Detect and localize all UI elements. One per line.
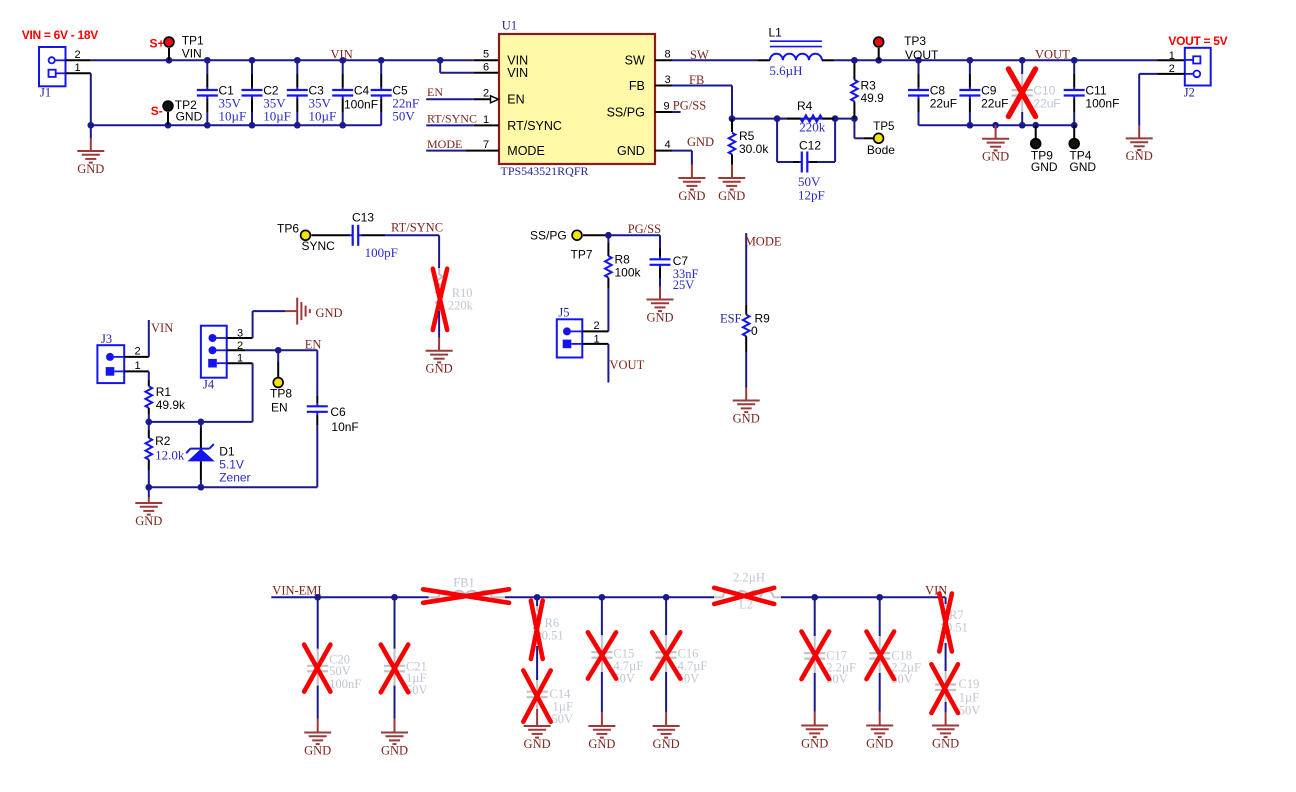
ground J2 [1126, 138, 1153, 163]
wire U1 pin3 FB [655, 86, 732, 119]
testpoint TP4 [1069, 125, 1096, 174]
wire branch to U1 pin6 [440, 60, 499, 73]
DNP X over C14 [523, 670, 550, 721]
ground R9 [733, 401, 760, 426]
svg-text:TP3: TP3 [904, 34, 926, 48]
label net PG/SS at TP7 [628, 222, 661, 236]
svg-text:GND: GND [678, 189, 705, 203]
wire MODE stub to U1 pin7 [426, 150, 499, 152]
svg-text:2: 2 [593, 320, 599, 332]
wire EMI rail mid [505, 596, 714, 598]
connector J5 [557, 306, 583, 358]
wire EMI rail left [271, 596, 428, 598]
svg-text:1: 1 [74, 62, 80, 74]
svg-text:12pF: 12pF [798, 188, 825, 203]
svg-text:J2: J2 [1184, 86, 1195, 100]
capacitor C6 [307, 396, 359, 487]
svg-text:7: 7 [483, 139, 489, 151]
capacitor C18 (DNP) [869, 597, 921, 725]
ground C7 [646, 300, 673, 325]
wire MODE stub [745, 233, 747, 315]
label VIN = 6V - 18V [22, 28, 98, 42]
svg-text:EN: EN [507, 92, 524, 106]
svg-text:GND: GND [1126, 149, 1153, 163]
svg-text:R4: R4 [797, 99, 813, 113]
capacitor C15 (DNP) [591, 597, 643, 726]
inductor L2 (DNP) [714, 571, 781, 612]
J2 pin labels [1169, 50, 1175, 75]
svg-text:GND: GND [1069, 160, 1096, 174]
svg-text:C4: C4 [354, 83, 370, 97]
connector J4 [201, 326, 227, 392]
svg-text:GND: GND [932, 736, 959, 750]
svg-text:22uF: 22uF [1033, 96, 1060, 110]
label net RT/SYNC at U1 [427, 112, 477, 126]
wire J5 pin1 to VOUT stub [582, 344, 608, 383]
svg-text:MODE: MODE [507, 144, 545, 158]
svg-text:GND: GND [653, 737, 680, 751]
svg-text:VIN-EMI: VIN-EMI [272, 584, 321, 598]
svg-text:10nF: 10nF [331, 420, 358, 434]
capacitor C3 [287, 60, 336, 125]
wire SW to VOUT rail [834, 59, 1185, 61]
capacitor C1 [197, 60, 246, 125]
svg-text:9: 9 [663, 100, 669, 112]
U1 pin numbers [483, 49, 671, 152]
resistor R9 [720, 312, 770, 388]
ground output mid [982, 125, 1009, 163]
DNP X over FB1 [423, 589, 509, 603]
svg-text:VIN: VIN [331, 47, 353, 61]
svg-text:VIN: VIN [151, 321, 173, 335]
node VIN junctions top rail [166, 57, 444, 64]
svg-text:VOUT: VOUT [1035, 47, 1070, 61]
svg-text:GND: GND [866, 736, 893, 750]
inductor L1 [757, 25, 834, 78]
svg-text:100nF: 100nF [344, 97, 378, 111]
capacitor C16 (DNP) [656, 597, 708, 726]
svg-text:GND: GND [617, 144, 645, 158]
wire R9 to ground [745, 388, 747, 401]
node output bottom junctions [967, 122, 1078, 129]
wire R10 to ground [438, 311, 440, 351]
label net PG/SS at U1 [673, 99, 706, 113]
svg-text:MODE: MODE [745, 235, 782, 249]
connector J2 [1184, 48, 1211, 100]
capacitor C9 [959, 60, 1008, 125]
ground C17 [801, 726, 828, 751]
svg-text:J1: J1 [40, 86, 51, 100]
svg-text:GND: GND [718, 189, 745, 203]
resistor R7 (DNP) [942, 597, 968, 639]
svg-text:GND: GND [77, 162, 104, 176]
svg-text:TP7: TP7 [571, 248, 593, 262]
svg-text:EN: EN [427, 85, 443, 99]
testpoint TP3 [874, 34, 939, 62]
wire U1 pin4 GND [655, 151, 692, 165]
DNP X over C18 [867, 632, 895, 680]
svg-text:100nF: 100nF [1085, 96, 1119, 110]
svg-text:TP1: TP1 [182, 34, 204, 48]
wire divider bottom rail [149, 486, 317, 488]
DNP X over R7 [939, 594, 952, 652]
svg-text:100k: 100k [615, 265, 642, 279]
svg-text:GND: GND [176, 110, 203, 124]
wire SSPG node [583, 235, 660, 248]
ground R5 [718, 178, 745, 203]
ground C20 [304, 733, 331, 758]
svg-text:FB: FB [689, 73, 704, 87]
ground divider [135, 487, 162, 528]
svg-text:EN: EN [305, 338, 322, 352]
svg-text:50V: 50V [392, 109, 415, 124]
label net VOUT at J5 [610, 358, 645, 372]
svg-text:RT/SYNC: RT/SYNC [427, 112, 477, 126]
svg-text:C11: C11 [1085, 83, 1106, 97]
testpoint TP2 [151, 98, 203, 125]
label VOUT = 5V [1168, 34, 1227, 48]
ground U1 pin4 [678, 165, 705, 203]
svg-text:GND: GND [1031, 160, 1058, 174]
wire J3 pin1 to R1 [124, 371, 149, 386]
J1 pin 1 label [74, 62, 80, 74]
wire input bottom rail [91, 124, 381, 126]
svg-text:GND: GND [588, 737, 615, 751]
label net FB [689, 73, 704, 87]
svg-text:10µF: 10µF [309, 109, 337, 124]
diode D1 zener [186, 422, 250, 487]
svg-text:GND: GND [381, 743, 408, 757]
svg-text:TP6: TP6 [277, 222, 299, 236]
node bottom rail junctions [87, 122, 346, 129]
svg-text:S-: S- [151, 104, 163, 118]
wire U1 pin9 stub [655, 111, 681, 113]
DNP X over C21 [381, 645, 408, 693]
DNP X over R6 [531, 601, 543, 659]
J3 pin labels [134, 346, 140, 373]
capacitor C2 [242, 60, 291, 125]
svg-text:1: 1 [134, 360, 140, 372]
label net MODE stub [745, 235, 782, 249]
svg-text:ESF: ESF [720, 312, 742, 326]
svg-text:GND: GND [801, 736, 828, 750]
svg-text:0.51: 0.51 [542, 629, 564, 643]
DNP X over C17 [802, 632, 830, 680]
svg-text:SW: SW [625, 54, 645, 68]
svg-text:GND: GND [733, 411, 760, 425]
svg-text:R1: R1 [156, 385, 172, 399]
ferrite bead FB1 (DNP) [429, 576, 505, 598]
svg-text:6: 6 [483, 62, 489, 74]
svg-text:10µF: 10µF [219, 109, 247, 124]
testpoint TP9 [1031, 125, 1058, 174]
ground C14 [524, 726, 551, 751]
capacitor C5 [371, 60, 419, 125]
testpoint TP7 SS/PG [530, 229, 593, 262]
ground C16 [653, 726, 680, 751]
svg-text:FB1: FB1 [453, 576, 475, 590]
svg-text:VIN = 6V - 18V: VIN = 6V - 18V [22, 28, 98, 42]
svg-text:1µF: 1µF [959, 690, 979, 704]
label net VIN [331, 47, 353, 61]
capacitor C14 (DNP) [527, 680, 573, 726]
wire EMI rail right [781, 596, 946, 598]
capacitor C11 [1064, 60, 1120, 125]
svg-text:GND: GND [687, 135, 714, 149]
wire U1 pin8 SW to L1 [655, 59, 757, 61]
svg-text:30.0k: 30.0k [739, 142, 769, 156]
label net EN at U1 [427, 85, 443, 99]
wire FB node rail [732, 118, 854, 120]
capacitor C7 [650, 249, 699, 300]
J5 pin labels [593, 320, 599, 345]
svg-text:C12: C12 [799, 138, 821, 152]
svg-text:MODE: MODE [427, 137, 462, 151]
wire J4 pin3 to side ground [227, 311, 297, 338]
ground C18 [866, 726, 893, 751]
capacitor C12 [777, 119, 835, 203]
svg-text:2: 2 [483, 87, 489, 99]
ground C21 [381, 733, 408, 758]
capacitor C20 (DNP) [307, 597, 361, 732]
svg-text:GND: GND [316, 306, 343, 320]
svg-text:C6: C6 [330, 405, 346, 419]
svg-text:SS/PG: SS/PG [607, 106, 645, 120]
svg-text:1: 1 [483, 114, 489, 126]
svg-text:49.9: 49.9 [861, 91, 885, 105]
wire J4 pin2 EN net [227, 350, 318, 396]
J4 pin labels [237, 328, 243, 365]
node VOUT rail junctions [851, 57, 1077, 64]
svg-text:EN: EN [271, 401, 288, 415]
svg-text:RT/SYNC: RT/SYNC [507, 119, 562, 133]
node EMI rail junctions [314, 594, 883, 601]
svg-text:GND: GND [304, 743, 331, 757]
node bottom divider junctions [145, 484, 204, 491]
DNP X over R10 [433, 269, 447, 330]
svg-text:1: 1 [1169, 50, 1175, 62]
svg-text:4: 4 [664, 139, 670, 151]
ground sideways at J4 pin3 [297, 298, 342, 325]
wire J1 pin2 to VIN rail [66, 59, 170, 61]
op-amp U1 TPS543521RQFR body [499, 18, 655, 178]
wire R6 to C14 [536, 646, 538, 680]
node FB junctions [729, 115, 858, 122]
svg-text:GND: GND [135, 514, 162, 528]
svg-text:3: 3 [664, 74, 670, 86]
svg-text:VIN: VIN [182, 47, 202, 61]
ground C15 [588, 726, 615, 751]
svg-text:10µF: 10µF [263, 109, 291, 124]
capacitor C21 (DNP) [384, 597, 428, 732]
testpoint TP5 Bode [854, 119, 895, 158]
svg-text:VOUT: VOUT [905, 48, 939, 62]
connector J3 [97, 332, 124, 383]
wire R7 to C19 [945, 643, 947, 671]
wire J4 pin1 to divider mid [227, 363, 253, 422]
resistor R8 [605, 235, 641, 331]
svg-text:Bode: Bode [867, 143, 895, 157]
node SSPG junction [605, 232, 612, 239]
wire RT/SYNC stub to U1 pin1 [426, 124, 499, 126]
svg-text:22uF: 22uF [930, 96, 957, 110]
testpoint TP6 SYNC [277, 222, 335, 254]
svg-text:25V: 25V [673, 278, 695, 292]
resistor R4 [777, 99, 835, 135]
wire VIN rail to U1 pin5 [440, 59, 499, 61]
DNP X over C10 [1009, 69, 1036, 116]
label net VIN at J3 [151, 321, 173, 335]
J1 pin 2 label [74, 49, 80, 61]
svg-text:2: 2 [134, 346, 140, 358]
svg-text:SW: SW [690, 48, 709, 62]
svg-text:GND: GND [426, 362, 453, 376]
testpoint TP1 [150, 34, 205, 61]
wire VIN stub down to J3 pin2 [148, 320, 150, 357]
capacitor C10 (DNP) [1012, 60, 1061, 125]
svg-text:C8: C8 [930, 83, 946, 97]
ground J1 [77, 125, 104, 176]
svg-text:SS/PG: SS/PG [530, 229, 567, 243]
svg-text:U1: U1 [502, 18, 517, 32]
label net EN at J4 [305, 338, 322, 352]
svg-text:GND: GND [646, 310, 673, 324]
wire J2 pin2 to ground [1139, 74, 1185, 138]
label net RT/SYNC at C13 [391, 221, 443, 235]
label net MODE at U1 [427, 137, 462, 151]
svg-text:RT/SYNC: RT/SYNC [391, 221, 443, 235]
svg-text:VOUT = 5V: VOUT = 5V [1168, 34, 1227, 48]
resistor R3 [851, 60, 884, 118]
svg-text:C19: C19 [959, 677, 980, 691]
resistor R10 (DNP) [436, 268, 474, 313]
wire EN stub to U1 pin2 [426, 96, 498, 103]
node EN junction TP8 [275, 347, 282, 354]
label net VIN-EMI [272, 584, 321, 598]
svg-text:50V: 50V [959, 703, 981, 717]
svg-text:50V: 50V [552, 712, 574, 726]
capacitor C4 [332, 60, 378, 125]
svg-text:100nF: 100nF [329, 677, 361, 691]
svg-text:J3: J3 [101, 332, 112, 346]
svg-text:C13: C13 [352, 211, 374, 225]
svg-text:C10: C10 [1033, 83, 1055, 97]
DNP X over C15 [588, 632, 616, 678]
capacitor C8 [908, 60, 957, 125]
wire output bottom rail [919, 124, 1075, 126]
svg-text:8: 8 [664, 49, 670, 61]
svg-text:J5: J5 [558, 306, 569, 320]
svg-text:VIN: VIN [925, 584, 947, 598]
ground R10 [426, 351, 453, 376]
wire EN divider mid rail [149, 421, 253, 423]
svg-text:5.1V: 5.1V [219, 457, 244, 471]
svg-text:0: 0 [751, 324, 758, 338]
svg-text:220k: 220k [799, 120, 826, 135]
label net VIN at EMI [925, 584, 947, 598]
svg-text:Zener: Zener [219, 470, 250, 484]
capacitor C17 (DNP) [804, 597, 856, 725]
capacitor C19 (DNP) [935, 671, 980, 726]
svg-text:12.0k: 12.0k [155, 447, 185, 462]
svg-text:TP8: TP8 [270, 387, 292, 401]
svg-text:C9: C9 [981, 83, 997, 97]
svg-text:L1: L1 [769, 25, 783, 39]
svg-text:GND: GND [524, 737, 551, 751]
resistor R2 [146, 422, 185, 487]
ground C19 [932, 726, 959, 751]
svg-text:5: 5 [483, 49, 489, 61]
svg-text:R2: R2 [155, 434, 171, 448]
U1 pin names [507, 54, 645, 158]
resistor R5 [729, 119, 770, 178]
svg-text:GND: GND [982, 150, 1009, 164]
svg-text:PG/SS: PG/SS [628, 222, 661, 236]
svg-text:100pF: 100pF [365, 245, 398, 260]
wire J3 pin2 [124, 356, 149, 358]
svg-text:TPS543521RQFR: TPS543521RQFR [501, 164, 589, 178]
svg-text:TP5: TP5 [873, 121, 894, 133]
label net GND at U1 pin4 [687, 135, 714, 149]
node divider junctions [145, 419, 204, 426]
DNP X over C20 [304, 645, 330, 692]
DNP X over L2 [714, 588, 774, 604]
svg-text:SYNC: SYNC [302, 239, 336, 253]
testpoint TP8 EN [270, 350, 292, 414]
svg-text:49.9k: 49.9k [156, 398, 186, 412]
resistor R1 [146, 385, 187, 422]
svg-text:FB: FB [629, 79, 645, 93]
connector J1 [39, 47, 66, 100]
capacitor C13 [312, 211, 398, 261]
wire J1 pin1 to bottom rail [66, 73, 91, 125]
label net SW [690, 48, 709, 62]
wire J5 pin2 to R8 [582, 330, 608, 332]
wire RT/SYNC to R10 [385, 235, 439, 268]
svg-text:S+: S+ [150, 37, 165, 51]
DNP X over C19 [931, 664, 958, 713]
svg-text:VIN: VIN [507, 66, 528, 80]
wire VIN rail top [169, 59, 440, 61]
DNP X over C16 [652, 632, 680, 678]
svg-text:22uF: 22uF [981, 96, 1008, 110]
svg-text:VOUT: VOUT [610, 358, 645, 372]
resistor R6 (DNP) [534, 597, 564, 645]
svg-text:220k: 220k [448, 299, 474, 313]
svg-text:J4: J4 [203, 378, 215, 392]
label net VOUT [1035, 47, 1070, 61]
svg-text:2.2µH: 2.2µH [733, 571, 765, 585]
svg-text:PG/SS: PG/SS [673, 99, 706, 113]
svg-text:5.6µH: 5.6µH [769, 63, 802, 78]
